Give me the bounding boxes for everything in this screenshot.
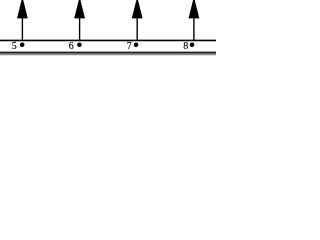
node 7 dot (134, 43, 139, 48)
svg-text:7: 7 (127, 41, 132, 52)
wire: gray rule below bus (0, 54, 216, 56)
node 6 dot (77, 43, 82, 48)
node 8 dot (190, 43, 195, 48)
svg-text:8: 8 (183, 41, 188, 52)
current arrow at node 7 (132, 0, 143, 41)
node 5 dot (20, 43, 25, 48)
svg-text:5: 5 (12, 41, 17, 52)
current arrow at node 5 (17, 0, 28, 41)
wire: bottom bus line (0, 52, 216, 54)
current arrow at node 6 (74, 0, 85, 41)
current arrow at node 8 (189, 0, 200, 41)
svg-text:6: 6 (69, 41, 74, 52)
wire: top bus line (0, 39, 216, 41)
